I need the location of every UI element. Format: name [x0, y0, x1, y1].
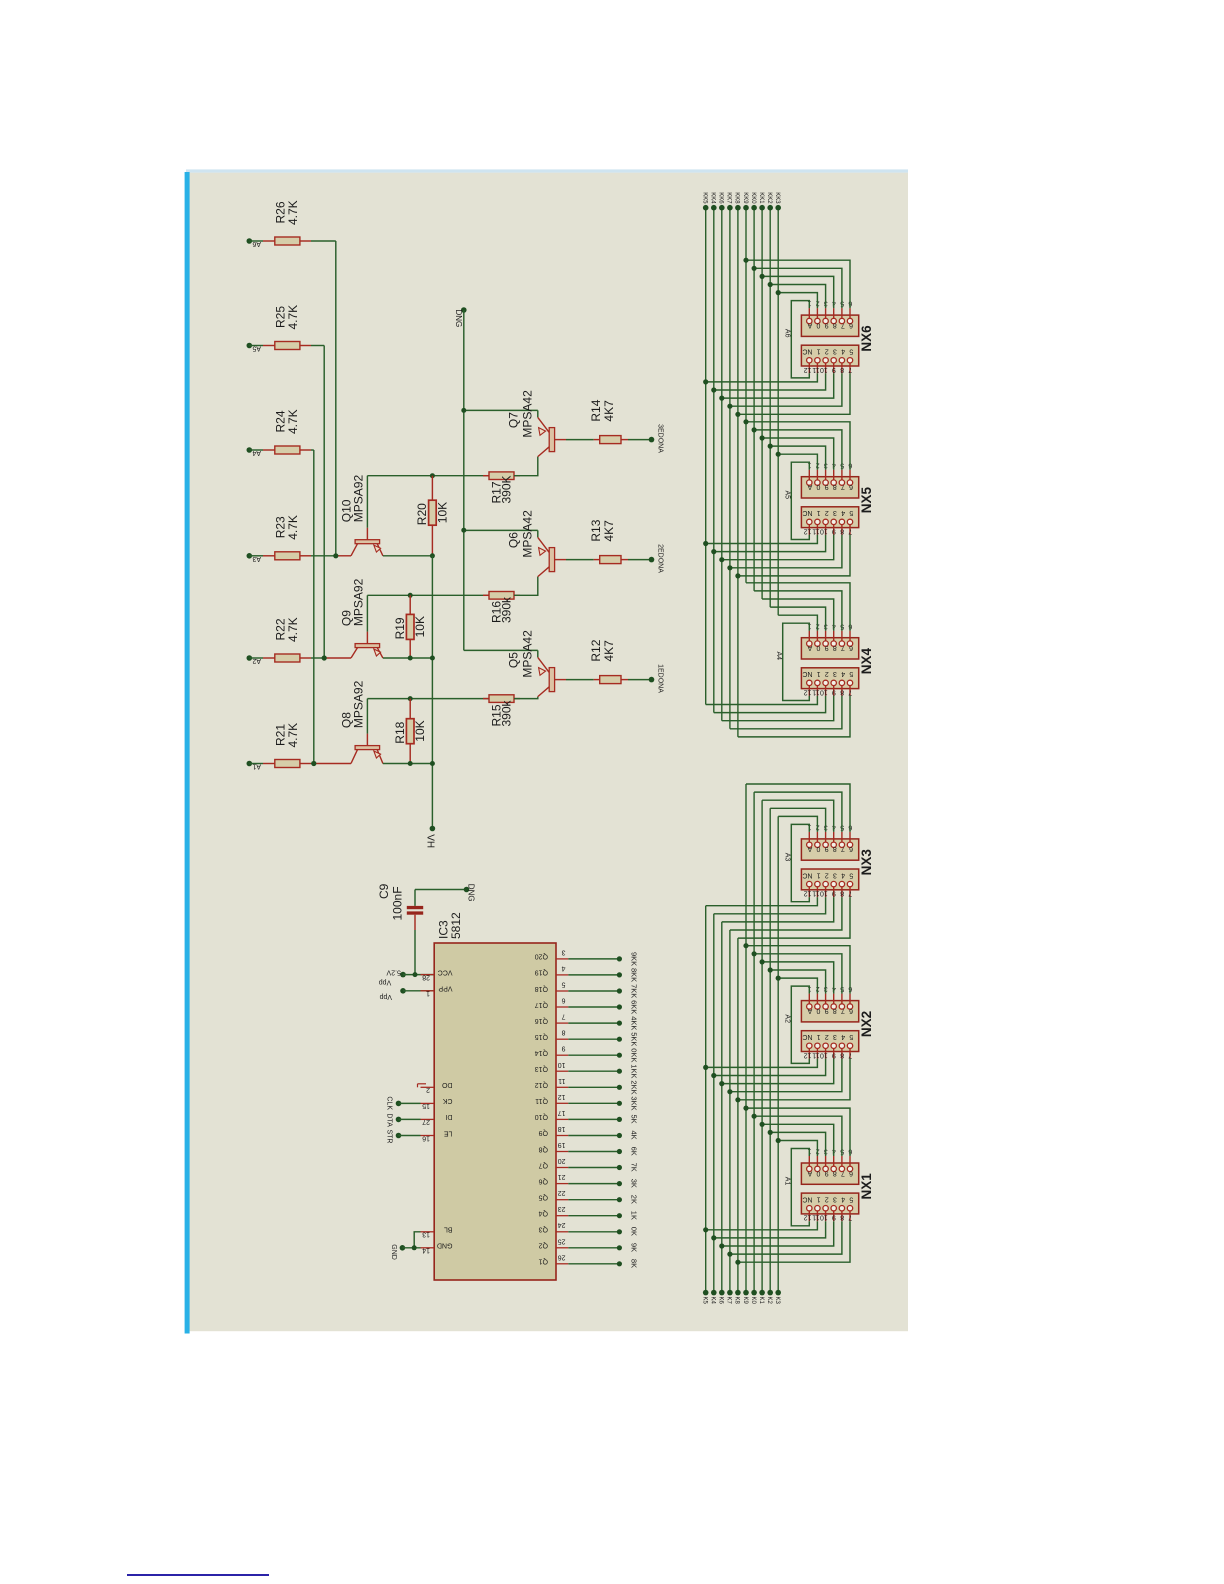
IC3 pin 15 CK	[421, 1102, 435, 1104]
svg-text:3K: 3K	[629, 1179, 638, 1188]
svg-text:Q8: Q8	[539, 1145, 548, 1152]
wire BL to GND pin	[414, 1232, 420, 1248]
wires NX3 lower pins to bus	[706, 897, 818, 906]
svg-text:5: 5	[849, 348, 853, 355]
svg-text:10K: 10K	[413, 616, 427, 637]
svg-text:K6: K6	[718, 1297, 724, 1305]
svg-text:KK8: KK8	[734, 192, 740, 204]
svg-text:4.7K: 4.7K	[286, 515, 300, 540]
IC3 pin 13 BL	[421, 1231, 435, 1233]
svg-text:BL: BL	[444, 1226, 453, 1233]
svg-text:8: 8	[840, 527, 844, 534]
IC3 pin 14 GND	[421, 1247, 435, 1249]
svg-text:A: A	[807, 1007, 812, 1014]
svg-text:4.7K: 4.7K	[286, 617, 300, 642]
svg-text:A: A	[807, 644, 812, 651]
IC3 output Q7 pin 20 net K7	[556, 1167, 568, 1169]
svg-text:2: 2	[825, 670, 829, 677]
svg-text:10: 10	[820, 527, 828, 534]
svg-text:8: 8	[833, 483, 837, 490]
svg-text:VH: VH	[424, 834, 435, 848]
svg-text:10K: 10K	[435, 502, 449, 523]
svg-text:4.7K: 4.7K	[286, 305, 300, 330]
IC3 output Q3 pin 24 net K0	[556, 1231, 568, 1233]
svg-text:11: 11	[812, 1051, 819, 1058]
svg-text:KK0: KK0	[750, 192, 756, 204]
svg-text:1: 1	[817, 670, 821, 677]
svg-text:8: 8	[833, 644, 837, 651]
svg-text:NC: NC	[802, 509, 812, 516]
svg-text:8: 8	[833, 845, 837, 852]
bus line KK4	[713, 208, 715, 713]
terminal GND at IC	[400, 1245, 406, 1251]
svg-text:4: 4	[841, 348, 845, 355]
svg-text:Q4: Q4	[539, 1210, 548, 1217]
IC3 output Q10 pin 17 net K5	[556, 1118, 568, 1120]
svg-text:24: 24	[558, 1221, 566, 1228]
svg-text:NX4: NX4	[859, 647, 874, 674]
svg-text:7: 7	[841, 1007, 845, 1014]
svg-text:Q16: Q16	[535, 1017, 548, 1024]
svg-text:28: 28	[422, 973, 430, 980]
svg-text:R12: R12	[589, 639, 603, 661]
svg-text:9: 9	[832, 1214, 836, 1221]
bus line KK6	[721, 208, 723, 721]
svg-text:R18: R18	[393, 721, 407, 743]
svg-text:7K: 7K	[629, 1163, 638, 1172]
svg-text:CLK: CLK	[385, 1096, 392, 1110]
IC3 pin 1 VPP	[421, 990, 435, 992]
wire Q9 emitter to R19/HV node	[383, 657, 433, 659]
svg-text:9: 9	[825, 321, 829, 328]
bus line KK0	[753, 208, 755, 591]
resistor R14 4K7	[594, 439, 600, 441]
svg-text:12: 12	[804, 1214, 812, 1221]
svg-text:Q18: Q18	[535, 985, 548, 992]
svg-text:7: 7	[848, 1214, 852, 1221]
svg-text:A: A	[807, 1169, 812, 1176]
wires NX1 upper pins to bus	[778, 1141, 817, 1157]
svg-text:8: 8	[840, 890, 844, 897]
footer hyperlink underline	[127, 1574, 269, 1576]
svg-text:8: 8	[840, 688, 844, 695]
svg-text:Q6: Q6	[539, 1177, 548, 1184]
wire R17 to Q7 collector	[514, 457, 538, 476]
svg-text:27: 27	[422, 1118, 430, 1125]
svg-text:4KK: 4KK	[629, 1016, 638, 1030]
wires NX5 upper pins to bus	[778, 454, 817, 470]
svg-text:15: 15	[422, 1102, 430, 1109]
IC3 output Q15 pin 8 net KK5	[556, 1038, 568, 1040]
IC3 output Q18 pin 5 net KK7	[556, 990, 568, 992]
capacitor C9 100nF	[414, 890, 416, 906]
svg-text:9: 9	[825, 845, 829, 852]
wire R16 to Q6 collector	[514, 577, 538, 596]
resistor R24 4.7K with input terminal A4	[247, 447, 253, 453]
resistor R26 4.7K with input terminal A6	[247, 238, 253, 244]
resistor R23 4.7K with input terminal A3	[247, 553, 253, 559]
svg-text:12: 12	[804, 1051, 812, 1058]
svg-text:7: 7	[848, 1051, 852, 1058]
svg-text:MPSA42: MPSA42	[520, 630, 534, 678]
svg-text:Q10: Q10	[535, 1113, 548, 1120]
svg-text:6: 6	[849, 644, 853, 651]
resistor R17 390K	[483, 475, 489, 477]
wire R25 output to base column	[311, 345, 324, 347]
nixie tube NX2 lower pin row	[801, 1031, 858, 1052]
svg-text:4.7K: 4.7K	[286, 723, 300, 748]
transistor Q9 MPSA92	[366, 632, 368, 644]
IC3 output Q4 pin 23 net K1	[556, 1215, 568, 1217]
svg-text:8: 8	[833, 321, 837, 328]
nixie tube NX3 upper pin row	[801, 839, 858, 860]
svg-text:5.2V: 5.2V	[386, 969, 401, 976]
IC3 pin 2 DO	[421, 1086, 435, 1088]
wire R15 to Q5 collector	[514, 697, 538, 699]
svg-text:7: 7	[848, 688, 852, 695]
resistor R20 10K	[431, 476, 433, 501]
bus line KK2	[769, 208, 771, 607]
svg-text:10: 10	[820, 1214, 828, 1221]
IC3 output Q14 pin 9 net KK0	[556, 1054, 568, 1056]
svg-text:A: A	[807, 321, 812, 328]
svg-text:R14: R14	[589, 399, 603, 421]
svg-text:1: 1	[817, 509, 821, 516]
svg-text:VCC: VCC	[438, 968, 453, 975]
svg-text:0: 0	[816, 1169, 820, 1176]
svg-text:6: 6	[562, 997, 566, 1004]
terminal GND top	[461, 307, 467, 313]
svg-text:MPSA92: MPSA92	[351, 578, 365, 626]
svg-text:0: 0	[816, 845, 820, 852]
svg-text:3EDONA: 3EDONA	[657, 424, 664, 453]
svg-text:26: 26	[558, 1253, 566, 1260]
wire GND rail vertical	[463, 310, 465, 650]
svg-text:12: 12	[804, 890, 812, 897]
svg-text:6: 6	[849, 483, 853, 490]
svg-text:NX3: NX3	[859, 849, 874, 876]
IC3 pin 28 VCC	[421, 974, 435, 976]
svg-text:Q7: Q7	[507, 412, 521, 428]
svg-text:K5: K5	[702, 1297, 708, 1305]
svg-text:0: 0	[816, 644, 820, 651]
schematic sheet background	[189, 173, 908, 1332]
svg-text:LE: LE	[444, 1129, 453, 1136]
resistor R12 4K7	[594, 679, 600, 681]
svg-text:4: 4	[841, 670, 845, 677]
svg-text:7: 7	[848, 366, 852, 373]
nixie tube NX4 lower pin row	[801, 668, 858, 689]
terminal ANODE2	[649, 557, 655, 563]
svg-text:23: 23	[558, 1205, 566, 1212]
IC3 output Q5 pin 22 net K2	[556, 1199, 568, 1201]
svg-text:DO: DO	[441, 1081, 452, 1088]
svg-text:0KK: 0KK	[629, 1048, 638, 1062]
svg-text:6: 6	[849, 845, 853, 852]
svg-text:C9: C9	[377, 883, 391, 899]
svg-text:DI: DI	[445, 1113, 452, 1120]
svg-text:20: 20	[558, 1157, 566, 1164]
svg-text:100nF: 100nF	[391, 886, 405, 920]
svg-text:6: 6	[849, 1169, 853, 1176]
svg-text:Q5: Q5	[539, 1194, 548, 1201]
svg-text:1K: 1K	[629, 1211, 638, 1220]
svg-text:2: 2	[426, 1086, 430, 1093]
svg-text:16: 16	[422, 1134, 430, 1141]
svg-text:Q7: Q7	[539, 1161, 548, 1168]
nixie tube NX1 lower pin row	[801, 1193, 858, 1214]
svg-text:KK4: KK4	[710, 192, 716, 204]
svg-text:11: 11	[812, 1214, 819, 1221]
svg-text:A4: A4	[775, 652, 782, 661]
svg-text:10: 10	[558, 1061, 566, 1068]
svg-text:K4: K4	[710, 1297, 716, 1305]
resistor R21 4.7K with input terminal A1	[247, 761, 253, 767]
svg-text:8KK: 8KK	[629, 968, 638, 982]
svg-text:390k: 390k	[500, 596, 514, 623]
IC3 output Q1 pin 26 net K8	[556, 1263, 568, 1265]
IC3 output Q12 pin 11 net KK2	[556, 1086, 568, 1088]
IC3 output Q9 pin 18 net K4	[556, 1135, 568, 1137]
IC3 output Q2 pin 25 net K9	[556, 1247, 568, 1249]
transistor Q5 MPSA42	[464, 649, 538, 651]
svg-text:8K: 8K	[629, 1259, 638, 1268]
wire LE input	[396, 1133, 402, 1139]
svg-text:4K7: 4K7	[602, 640, 616, 662]
svg-text:KK3: KK3	[774, 192, 780, 204]
svg-text:Q20: Q20	[535, 953, 548, 960]
svg-text:Vpp: Vpp	[379, 979, 392, 986]
svg-text:5: 5	[849, 670, 853, 677]
svg-text:2KK: 2KK	[629, 1080, 638, 1094]
svg-text:NC: NC	[802, 670, 812, 677]
svg-text:R19: R19	[393, 617, 407, 639]
svg-text:MPSA92: MPSA92	[351, 475, 365, 523]
svg-text:9KK: 9KK	[629, 952, 638, 966]
wires NX3 upper pins to bus	[778, 816, 817, 832]
IC3 output Q13 pin 10 net KK1	[556, 1070, 568, 1072]
svg-text:4K: 4K	[629, 1131, 638, 1140]
svg-text:12: 12	[558, 1093, 566, 1100]
svg-text:KK7: KK7	[726, 192, 732, 204]
svg-text:3: 3	[833, 670, 837, 677]
svg-text:8: 8	[562, 1029, 566, 1036]
wire CK input	[396, 1101, 402, 1107]
wire Q10 base line to R20 top and R17	[367, 475, 489, 477]
svg-text:8: 8	[840, 1214, 844, 1221]
IC3 pin 16 LE	[421, 1135, 435, 1137]
svg-text:A6: A6	[783, 329, 790, 338]
svg-text:7KK: 7KK	[629, 984, 638, 998]
IC3 output Q17 pin 6 net KK6	[556, 1006, 568, 1008]
svg-text:3: 3	[833, 1195, 837, 1202]
svg-text:18: 18	[558, 1125, 566, 1132]
bus line KK8	[737, 208, 739, 737]
IC3 output Q6 pin 21 net K3	[556, 1183, 568, 1185]
wire NX2 pin1 to pin12 loop	[791, 986, 809, 1063]
svg-text:K0: K0	[750, 1297, 756, 1305]
svg-text:Q5: Q5	[507, 652, 521, 668]
svg-text:7: 7	[841, 483, 845, 490]
transistor Q7 MPSA42	[464, 409, 538, 411]
svg-text:11: 11	[812, 366, 819, 373]
svg-text:21: 21	[558, 1173, 566, 1180]
svg-text:10: 10	[820, 890, 828, 897]
nixie tube NX6 upper pin row	[801, 315, 858, 336]
svg-text:5: 5	[849, 871, 853, 878]
wire NX1 pin1 to pin12 loop	[791, 1149, 809, 1226]
svg-text:7: 7	[841, 644, 845, 651]
svg-text:3: 3	[833, 871, 837, 878]
svg-text:MPSA42: MPSA42	[520, 390, 534, 438]
wires NX2 lower pins to bus	[706, 1059, 818, 1068]
svg-text:Q3: Q3	[539, 1226, 548, 1233]
bus line KK1	[761, 208, 763, 599]
nixie tube NX2 upper pin row	[801, 1001, 858, 1022]
svg-text:6KK: 6KK	[629, 1000, 638, 1014]
svg-text:A: A	[807, 845, 812, 852]
svg-text:4K7: 4K7	[602, 520, 616, 542]
svg-text:1: 1	[817, 1033, 821, 1040]
svg-text:A: A	[807, 483, 812, 490]
svg-text:NC: NC	[802, 871, 812, 878]
wire NX4 pin1 to pin12 loop	[783, 623, 810, 700]
resistor R18 10K	[409, 699, 411, 719]
svg-text:R20: R20	[415, 503, 429, 525]
transistor Q6 MPSA42	[464, 529, 538, 531]
svg-text:7: 7	[841, 1169, 845, 1176]
svg-text:NX2: NX2	[859, 1011, 874, 1037]
svg-text:2: 2	[825, 1033, 829, 1040]
svg-text:1KK: 1KK	[629, 1064, 638, 1078]
resistor R25 4.7K with input terminal A5	[247, 343, 253, 349]
wires NX5 lower pins to bus	[706, 535, 818, 544]
svg-text:0: 0	[816, 321, 820, 328]
svg-text:DNG: DNG	[466, 884, 475, 902]
svg-text:Q17: Q17	[535, 1001, 548, 1008]
nixie tube NX3 lower pin row	[801, 869, 858, 890]
svg-text:3: 3	[833, 348, 837, 355]
svg-text:2: 2	[825, 509, 829, 516]
svg-text:9: 9	[825, 1169, 829, 1176]
svg-text:2EDONA: 2EDONA	[657, 544, 664, 573]
svg-text:5: 5	[849, 1033, 853, 1040]
svg-text:7: 7	[848, 527, 852, 534]
svg-text:9: 9	[825, 1007, 829, 1014]
svg-text:3: 3	[833, 509, 837, 516]
svg-text:Q6: Q6	[507, 532, 521, 548]
svg-text:NC: NC	[802, 348, 812, 355]
wire DI input	[396, 1117, 402, 1123]
terminal HV	[430, 826, 436, 832]
transistor Q8 MPSA92	[366, 734, 368, 746]
svg-text:9: 9	[832, 688, 836, 695]
svg-text:VPP: VPP	[438, 985, 452, 992]
svg-text:Vpp: Vpp	[379, 993, 392, 1000]
nixie tube NX5 lower pin row	[801, 507, 858, 528]
bus line KK3	[777, 208, 779, 616]
svg-text:4: 4	[841, 509, 845, 516]
IC3 output Q8 pin 19 net K6	[556, 1151, 568, 1153]
wires NX6 lower pins to bus	[706, 373, 818, 382]
svg-text:0: 0	[816, 1007, 820, 1014]
svg-text:11: 11	[558, 1077, 565, 1084]
svg-text:DTA: DTA	[385, 1113, 392, 1127]
wire Q10 emitter to R20/HV node	[383, 555, 433, 557]
bus line KK7	[729, 208, 731, 729]
svg-text:4K7: 4K7	[602, 400, 616, 422]
svg-text:3: 3	[562, 948, 566, 955]
svg-text:NX1: NX1	[859, 1173, 874, 1200]
svg-text:9: 9	[562, 1045, 566, 1052]
resistor R22 4.7K with input terminal A2	[247, 655, 253, 661]
wire R26 output to base column	[311, 240, 336, 242]
svg-text:Q13: Q13	[535, 1065, 548, 1072]
svg-text:19: 19	[558, 1141, 566, 1148]
wire R24 output to base column	[311, 449, 314, 451]
resistor R13 4K7	[594, 559, 600, 561]
svg-text:K8: K8	[734, 1297, 740, 1305]
resistor R19 10K	[409, 595, 411, 614]
no-connect DO stub tick	[418, 1083, 427, 1085]
svg-text:0K: 0K	[629, 1227, 638, 1236]
svg-text:11: 11	[812, 688, 819, 695]
svg-text:10: 10	[820, 1051, 828, 1058]
terminal GND near C9	[464, 887, 470, 893]
svg-text:8: 8	[833, 1169, 837, 1176]
svg-text:NX6: NX6	[859, 325, 874, 352]
cyan left border	[185, 172, 190, 1334]
wire NX3 pin1 to pin12 loop	[791, 824, 809, 901]
svg-text:2: 2	[825, 1195, 829, 1202]
svg-text:390k: 390k	[500, 699, 514, 726]
svg-text:14: 14	[422, 1247, 430, 1254]
svg-text:4: 4	[841, 871, 845, 878]
svg-text:GND: GND	[390, 1244, 397, 1260]
svg-text:4: 4	[562, 964, 566, 971]
svg-text:5KK: 5KK	[629, 1032, 638, 1046]
wire Q8 base line to R18 top and R15	[367, 698, 489, 700]
terminal Vpp 5.2V	[400, 972, 406, 978]
nixie tube NX5 upper pin row	[801, 477, 858, 498]
svg-text:Q19: Q19	[535, 969, 548, 976]
svg-text:9: 9	[825, 644, 829, 651]
svg-text:6: 6	[849, 321, 853, 328]
svg-text:K2: K2	[766, 1297, 772, 1305]
svg-text:MPSA42: MPSA42	[520, 510, 534, 558]
svg-text:8: 8	[840, 366, 844, 373]
wires NX4 lower pins to bus	[706, 696, 818, 705]
svg-text:KK5: KK5	[702, 192, 708, 204]
IC3 pin 27 DI	[421, 1118, 435, 1120]
svg-text:A1: A1	[783, 1177, 790, 1186]
svg-text:GND: GND	[437, 1242, 453, 1249]
svg-text:A3: A3	[783, 853, 790, 862]
svg-text:6K: 6K	[629, 1147, 638, 1156]
svg-text:6: 6	[849, 1007, 853, 1014]
svg-text:13: 13	[422, 1231, 430, 1238]
svg-text:25: 25	[558, 1237, 566, 1244]
svg-text:Q11: Q11	[535, 1097, 548, 1104]
svg-text:Q12: Q12	[535, 1081, 548, 1088]
svg-text:4.7K: 4.7K	[286, 200, 300, 225]
svg-text:0: 0	[816, 483, 820, 490]
svg-text:KK1: KK1	[758, 192, 764, 204]
wire C9 to GND	[415, 889, 467, 891]
terminal ANODE3	[649, 437, 655, 443]
svg-text:A5: A5	[783, 491, 790, 500]
terminal ANODE1	[649, 677, 655, 683]
